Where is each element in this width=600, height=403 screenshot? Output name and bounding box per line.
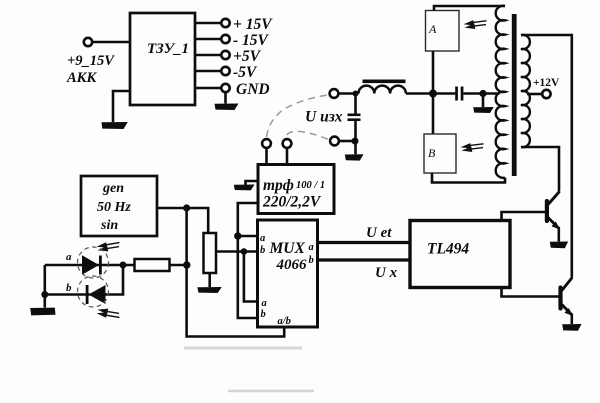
wire pin GND (195, 87, 221, 90)
ground at Q2 emitter (562, 324, 581, 331)
wire R2 to gen node line (170, 264, 188, 267)
wire TZU_1 ground stub (113, 91, 130, 122)
terminal +5V (221, 51, 229, 59)
terminal U_izx top (330, 89, 339, 98)
multiplexer U2 MUX 4066 box (258, 220, 318, 327)
svg-text:a: a (262, 298, 267, 309)
transistor Q2 emitter with arrow (562, 305, 572, 315)
dashed circle around photodiode b (78, 276, 109, 307)
capacitor C1 branch wire lower (354, 121, 357, 154)
ground at trf (234, 185, 255, 191)
wire R1 tap to MUX pin b (216, 250, 258, 253)
terminal -15V (221, 35, 229, 43)
capacitor C1 plates (348, 114, 361, 117)
svg-text:220/2,2V: 220/2,2V (262, 194, 322, 211)
svg-text:+ 15V: + 15V (233, 16, 273, 33)
svg-text:U x: U x (375, 265, 398, 281)
resistor R2 horizontal (135, 259, 170, 271)
svg-text:B: B (428, 146, 436, 160)
svg-text:b: b (261, 309, 266, 320)
wire TL494 to Q1 base (502, 212, 546, 221)
wire inductor to node (406, 92, 456, 95)
svg-text:50 Hz: 50 Hz (97, 200, 131, 215)
light arrows at photodiode b (97, 309, 120, 318)
dashed link trf-a to U_izx top (267, 95, 330, 137)
wire pin +5V (195, 54, 221, 57)
wire input terminal to TZU_1 (93, 41, 131, 44)
svg-text:a/b: a/b (278, 316, 291, 327)
svg-text:sin: sin (100, 218, 118, 233)
transformer TR1 primary winding (496, 6, 505, 178)
node line1 pin a junction (234, 232, 241, 239)
svg-text:U изх: U изх (305, 109, 343, 126)
transistor Q2 collector (562, 278, 572, 291)
wire Q1 emitter to ground (557, 227, 560, 242)
dashed link trf-b to U_izx bottom (287, 131, 330, 140)
photodiode a (82, 255, 99, 275)
transformer core (512, 14, 517, 176)
faint scan artifact line 1 (184, 347, 302, 350)
svg-text:+12V: +12V (533, 77, 560, 89)
capacitor C2 series plates (455, 87, 458, 101)
wire GND terminal to ground (224, 92, 227, 104)
wire trf to MUX vertical line1 (238, 203, 258, 318)
svg-text:+9_15V: +9_15V (67, 53, 115, 69)
wire B bottom to primary bottom (432, 173, 505, 183)
ground below U_izx branch (345, 154, 364, 160)
ground at primary centre tap (473, 107, 494, 113)
wire secondary bottom to Q1 collector (521, 147, 559, 192)
wire secondary centre tap to +12V (527, 93, 542, 96)
generator G1 gen 50Hz sin box (81, 176, 157, 236)
svg-text:a: a (260, 233, 265, 244)
node A/B midpoint junction (429, 90, 437, 98)
transistor Q2 base bar (558, 286, 562, 311)
photodiode b (89, 285, 106, 304)
transistor Q1 emitter with arrow (548, 218, 559, 229)
node gen output junction (183, 204, 190, 211)
resistor R1 vertical (204, 233, 217, 273)
terminal +15V (221, 19, 229, 27)
faint scan artifact line 2 (228, 390, 314, 393)
wire pin -15V (195, 38, 221, 41)
svg-text:b: b (309, 255, 314, 266)
light arrows at B (461, 143, 484, 152)
wire line2 tap to MUX lower pin a (244, 252, 258, 302)
wire trf right terminal stub (286, 148, 289, 165)
inductor L1 core bar (363, 80, 406, 84)
ground below AKK input (102, 122, 128, 129)
light arrows at photodiode a (97, 242, 120, 251)
svg-text:+5V: +5V (233, 48, 262, 65)
svg-text:b: b (66, 282, 72, 294)
optocoupler emitter box A (426, 11, 460, 52)
wire trf left terminal stub (265, 148, 268, 165)
ground below R1 (197, 287, 221, 293)
wire secondary top to Q2 collector (521, 35, 572, 278)
svg-text:4066: 4066 (276, 257, 308, 273)
svg-text:b: b (260, 245, 265, 256)
wire TL494 to Q2 base (502, 288, 559, 297)
svg-text:a: a (66, 251, 72, 263)
node R2 to a/b line junction (183, 261, 190, 268)
wire gen output to resistor R1 (157, 208, 208, 233)
transistor Q1 collector (548, 192, 560, 205)
svg-text:GND: GND (236, 81, 270, 98)
svg-text:-5V: -5V (233, 64, 258, 81)
node tap junction to line2 (241, 248, 248, 255)
ground at Q1 emitter (550, 242, 568, 249)
wire pin +15V (195, 22, 221, 25)
inductor L1 winding (359, 86, 406, 94)
wire A top to primary top (434, 6, 505, 11)
svg-text:АКК: АКК (66, 70, 98, 86)
wire top terminal to inductor (339, 92, 359, 95)
transformer TR1 secondary winding (521, 35, 530, 147)
svg-text:U et: U et (366, 225, 392, 241)
svg-text:MUX: MUX (269, 240, 306, 257)
terminal U_izx bottom (330, 137, 339, 146)
svg-text:- 15V: - 15V (233, 32, 270, 49)
wire pin -5V (195, 70, 221, 73)
photodiode a wire (45, 264, 135, 267)
dashed circle around photodiode a (78, 247, 109, 278)
terminal trf right (283, 139, 292, 148)
block U1 TZU_1 power converter box (130, 13, 195, 105)
terminal +12V (542, 90, 550, 98)
wire a/b control from gen node to MUX bottom (187, 208, 285, 337)
capacitor C1 branch wire upper (354, 94, 357, 114)
photodiode b wire (45, 265, 123, 295)
controller U3 TL494 box (410, 221, 510, 288)
terminal GND (221, 84, 229, 92)
node bottom terminal junction (352, 138, 359, 145)
svg-text:100 / 1: 100 / 1 (296, 180, 325, 191)
svg-text:gen: gen (102, 181, 124, 196)
wire MUX pin a top stub (238, 235, 258, 238)
svg-text:A: A (428, 22, 437, 36)
wire A bottom through node to B top (432, 51, 435, 134)
node ground branch junction (479, 90, 486, 97)
wire bottom terminal to node (339, 140, 355, 143)
wire Q2 emitter to ground (570, 314, 573, 325)
wire photodiode left leg (43, 265, 46, 308)
light arrows at A (464, 20, 487, 29)
wire trf ground stub (246, 181, 259, 185)
node inductor cap branch junction (353, 91, 359, 97)
node photodiode pair right junction (120, 262, 127, 269)
wire MUX out b to TL494 Ux (318, 258, 411, 261)
optocoupler emitter box B (424, 134, 456, 173)
wire MUX out a to TL494 Uet (318, 241, 411, 244)
terminal trf left (262, 139, 271, 148)
node photodiode left junction (41, 291, 48, 298)
transformer trf box (258, 165, 334, 214)
svg-text:трф: трф (263, 177, 294, 194)
ground below GND terminal (215, 104, 239, 111)
svg-text:ТЗУ_1: ТЗУ_1 (147, 41, 189, 57)
ground at photodiode pair (30, 308, 55, 316)
svg-text:TL494: TL494 (427, 241, 469, 258)
wire ground stub (482, 94, 485, 108)
wire R1 bottom to ground (208, 273, 211, 287)
svg-text:a: a (309, 242, 314, 253)
transistor Q1 base bar (545, 199, 549, 223)
terminal -5V (221, 67, 229, 75)
terminal +9_15V AKK input (84, 38, 92, 46)
wire C2 to primary centre tap (463, 92, 499, 95)
